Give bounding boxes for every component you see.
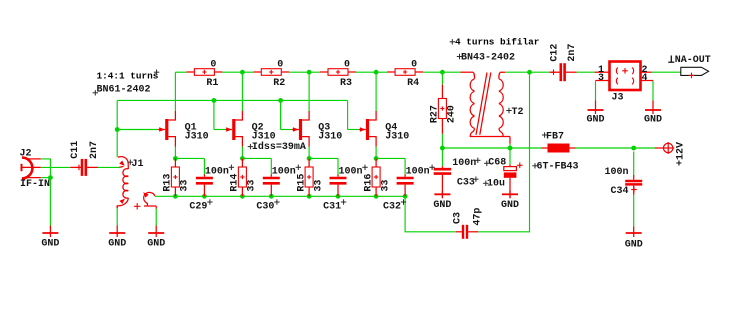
wire R27 top	[441, 72, 443, 84]
junction gate bus Q3	[278, 98, 283, 103]
capacitor C68	[504, 163, 523, 199]
ferrite bead FB7	[532, 131, 578, 172]
wire Q4 drain	[375, 72, 377, 111]
svg-text:J310: J310	[385, 132, 409, 143]
junction output node	[527, 70, 532, 75]
wire J2 shield to gnd	[49, 178, 51, 226]
svg-text:C30: C30	[256, 202, 274, 213]
wire Q3 drain	[308, 72, 310, 111]
wire J1 right leg to gnd	[155, 209, 157, 226]
ground J1 right	[147, 226, 165, 250]
svg-text:1:4:1 turns: 1:4:1 turns	[97, 71, 159, 82]
label J1 ratio	[97, 70, 160, 82]
svg-text:IF-IN: IF-IN	[20, 179, 50, 190]
svg-text:33: 33	[180, 180, 191, 192]
J3 pin 1 label	[598, 65, 604, 76]
label C34 value	[605, 167, 629, 178]
capacitor C11	[70, 141, 100, 176]
resistor R15	[296, 159, 324, 197]
svg-text:J3: J3	[612, 93, 624, 104]
svg-text:4 turns bifilar: 4 turns bifilar	[455, 37, 539, 48]
svg-text:J310: J310	[252, 132, 276, 143]
junction rail R15	[307, 194, 312, 199]
junction supply rail T2/C68	[508, 146, 513, 151]
junction gate bus Q2	[212, 98, 217, 103]
capacitor C3	[452, 208, 483, 239]
svg-text:33: 33	[313, 180, 324, 192]
wire T2 top to output	[505, 71, 530, 73]
svg-text:C11: C11	[70, 141, 81, 159]
svg-text:GND: GND	[501, 200, 519, 211]
capacitor C33	[434, 166, 452, 198]
svg-text:BN61-2402: BN61-2402	[97, 85, 151, 96]
label C32 name	[383, 199, 406, 212]
capacitor C30	[263, 175, 280, 197]
junction J2 shield	[48, 175, 53, 180]
connector J3	[595, 62, 653, 104]
junction top rail R27	[440, 70, 445, 75]
ground J3 pin3	[586, 100, 604, 125]
J3 pin 3 label	[598, 73, 604, 84]
svg-text:+12V: +12V	[676, 142, 687, 166]
wire J3 pin4 to gnd	[652, 81, 654, 101]
junction rail R13	[173, 194, 178, 199]
svg-text:GND: GND	[108, 239, 126, 250]
label C33 name	[457, 177, 479, 189]
wire rail to C3	[405, 196, 456, 232]
svg-text:BN43-2402: BN43-2402	[461, 53, 515, 64]
connector J2 IF-IN	[20, 149, 51, 191]
svg-text:10u: 10u	[487, 178, 505, 189]
svg-text:33: 33	[247, 180, 258, 192]
svg-text:GND: GND	[41, 238, 59, 249]
svg-text:C3: C3	[452, 212, 463, 224]
svg-text:R15: R15	[296, 174, 307, 192]
ground C34	[625, 226, 643, 250]
junction rail R16	[374, 194, 379, 199]
junction rail R14	[240, 194, 245, 199]
supply +12V	[662, 142, 686, 166]
svg-text:0: 0	[344, 60, 350, 71]
svg-text:2n7: 2n7	[567, 44, 578, 62]
svg-text:GND: GND	[644, 114, 662, 125]
junction top rail Q2 drain	[240, 70, 245, 75]
junction source node Q2	[240, 156, 245, 161]
svg-text:J310: J310	[185, 132, 209, 143]
svg-text:6T-FB43: 6T-FB43	[537, 162, 579, 173]
capacitor C29	[196, 175, 213, 197]
label C30 value	[272, 165, 301, 178]
svg-text:100n: 100n	[452, 158, 476, 169]
svg-text:R16: R16	[363, 174, 374, 192]
transformer J1	[117, 157, 156, 210]
transformer T2	[461, 72, 524, 144]
svg-text:C32: C32	[383, 202, 401, 213]
wire output to C12	[530, 71, 550, 73]
capacitor C32	[397, 175, 414, 197]
wire T2 bottom to rail	[509, 144, 511, 148]
label C33 value	[452, 158, 480, 169]
wire Q1 drain	[174, 72, 176, 111]
wire C3 to output node	[478, 72, 529, 232]
svg-text:100n: 100n	[605, 167, 629, 178]
svg-text:C68: C68	[488, 157, 506, 168]
junction rail C32	[403, 194, 408, 199]
wire Q2 source node	[242, 147, 271, 175]
label C34 name	[611, 186, 629, 197]
resistor R2	[253, 60, 289, 90]
junction source node Q4	[374, 156, 379, 161]
svg-text:GND: GND	[147, 239, 165, 250]
output flag LNA-OUT	[668, 55, 711, 78]
wire J1 left leg to gnd	[116, 208, 118, 225]
wire source bias rail	[155, 195, 405, 197]
J3 pin 4 label	[642, 73, 648, 84]
svg-text:0: 0	[411, 60, 417, 71]
svg-text:FB7: FB7	[546, 131, 564, 142]
svg-text:C12: C12	[550, 44, 561, 62]
wire R27 bottom	[441, 134, 443, 148]
junction supply rail C33	[440, 146, 445, 151]
wire C12 to J3 pin1	[577, 71, 595, 73]
svg-text:R3: R3	[340, 78, 352, 89]
junction source node Q1	[173, 156, 178, 161]
svg-text:3: 3	[598, 73, 604, 84]
svg-text:Idss=39mA: Idss=39mA	[252, 141, 306, 153]
svg-text:R4: R4	[407, 78, 419, 89]
svg-text:33: 33	[380, 180, 391, 192]
svg-text:NA-OUT: NA-OUT	[675, 55, 711, 66]
svg-text:240: 240	[447, 105, 458, 123]
transistor Q1	[158, 111, 209, 147]
wire C34 to gnd	[633, 195, 635, 227]
resistor R1	[186, 60, 222, 90]
wire J2 to C11	[41, 166, 71, 168]
wire C33 top	[441, 148, 443, 166]
svg-text:C34: C34	[611, 186, 629, 197]
svg-text:0: 0	[277, 60, 283, 71]
svg-text:C31: C31	[323, 202, 341, 213]
junction rail C29	[202, 194, 207, 199]
svg-text:R13: R13	[163, 174, 174, 192]
transistor Q2	[225, 111, 276, 147]
transistor Q3	[292, 111, 343, 147]
svg-text:100n: 100n	[205, 167, 229, 178]
resistor R14	[230, 159, 258, 197]
wire J2 shield top	[41, 159, 51, 178]
wire J3 pin2 to LNA-OUT	[652, 71, 681, 73]
label C29 name	[189, 199, 212, 212]
capacitor C31	[330, 175, 347, 197]
junction rail C31	[336, 194, 341, 199]
junction top rail Q4 drain	[374, 70, 379, 75]
ground C68	[501, 191, 519, 212]
svg-text:47p: 47p	[473, 208, 484, 226]
svg-text:J1: J1	[132, 159, 144, 170]
label C31 value	[339, 165, 368, 178]
svg-text:100n: 100n	[406, 167, 430, 178]
resistor R16	[363, 159, 391, 197]
svg-text:0: 0	[210, 60, 216, 71]
svg-text:2n7: 2n7	[89, 141, 100, 159]
wire gate bus	[117, 100, 359, 157]
wire top drain rail	[175, 71, 460, 73]
svg-text:R1: R1	[206, 78, 218, 89]
svg-text:R14: R14	[230, 174, 241, 192]
wire FB7 to +12V lead	[655, 147, 664, 149]
wire C34 top	[633, 152, 635, 176]
label Idss	[252, 141, 306, 153]
wire C68 top	[509, 148, 511, 165]
junction supply rail C34	[631, 146, 636, 151]
resistor R13	[163, 159, 191, 197]
svg-text:4: 4	[642, 73, 648, 84]
svg-text:R2: R2	[273, 78, 285, 89]
wire J2 shield bottom	[41, 177, 51, 179]
label C68 name	[484, 157, 506, 168]
label J1 core	[93, 85, 151, 96]
wire Q4 source node	[376, 147, 405, 175]
label C30 name	[256, 199, 279, 212]
ground C33	[433, 191, 451, 212]
svg-text:C33: C33	[457, 177, 475, 188]
svg-text:R27: R27	[430, 105, 441, 123]
ground J1 left	[108, 226, 126, 250]
label C68 value	[483, 178, 505, 189]
resistor R3	[320, 60, 356, 90]
junction source node Q3	[307, 156, 312, 161]
origin cross Idss	[248, 144, 253, 149]
wire Q2 drain	[241, 72, 243, 111]
label C31 name	[323, 199, 346, 212]
ground J2	[41, 226, 59, 250]
junction gate bus J1	[115, 127, 120, 132]
svg-text:J2: J2	[20, 149, 32, 160]
wire J3 pin3 to gnd	[595, 81, 597, 101]
svg-text:T2: T2	[512, 107, 524, 118]
svg-text:100n: 100n	[272, 167, 296, 178]
svg-text:100n: 100n	[339, 167, 363, 178]
svg-text:J310: J310	[318, 132, 342, 143]
label C29 value	[205, 165, 234, 178]
label T2 turns	[450, 37, 540, 48]
wire Q3 source node	[309, 147, 338, 175]
wire C11 to J1	[98, 166, 119, 168]
label C32 value	[406, 165, 435, 178]
label T2 core	[457, 53, 515, 64]
capacitor C34	[625, 175, 642, 195]
resistor R27	[430, 85, 458, 134]
J3 pin 2 label	[642, 65, 648, 76]
ground J3 pin4	[644, 100, 662, 125]
resistor R4	[387, 60, 423, 90]
capacitor C12	[550, 44, 579, 82]
svg-text:GND: GND	[625, 239, 643, 250]
wire Q1 source node	[175, 147, 204, 175]
junction top rail Q3 drain	[307, 70, 312, 75]
transistor Q4	[359, 111, 410, 147]
junction rail C30	[269, 194, 274, 199]
wire supply rail 147	[442, 147, 655, 149]
svg-text:GND: GND	[586, 114, 604, 125]
svg-text:C29: C29	[189, 202, 207, 213]
svg-text:GND: GND	[433, 200, 451, 211]
